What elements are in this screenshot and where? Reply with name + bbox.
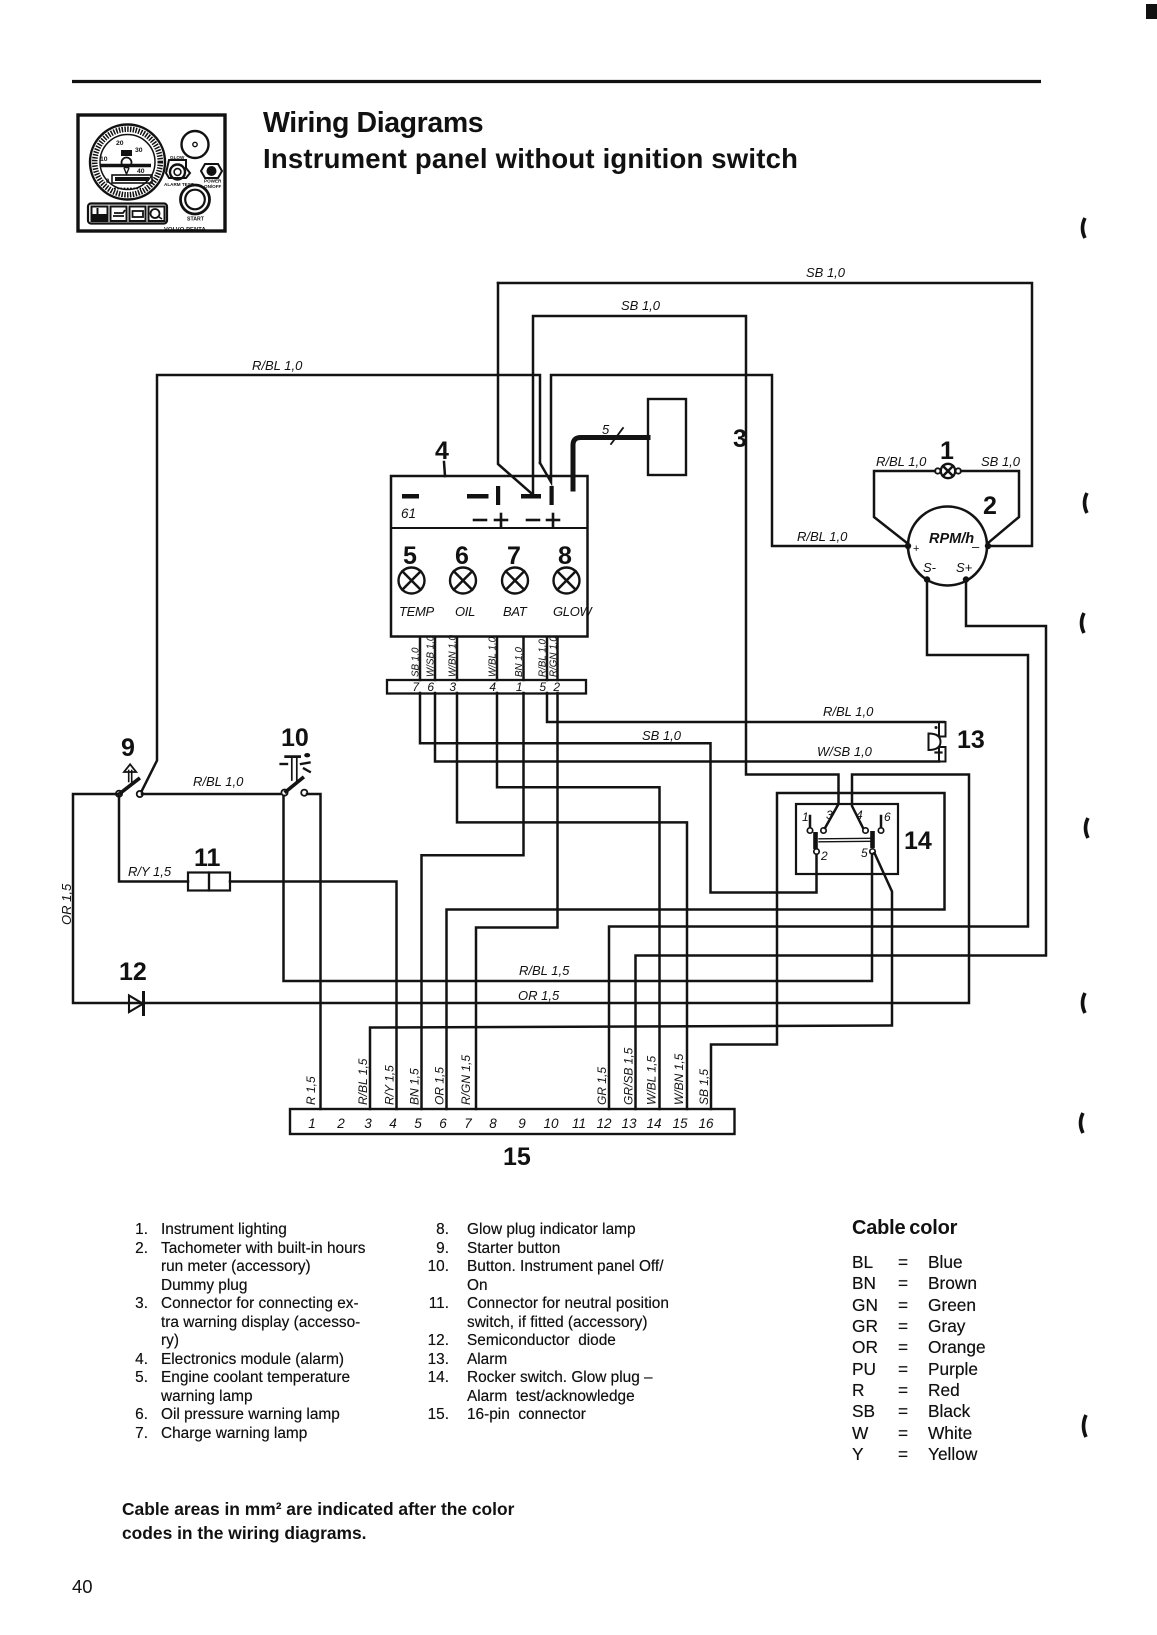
16-pin numbers xyxy=(308,1116,714,1131)
lamp L6 OIL xyxy=(450,542,476,619)
svg-text:15: 15 xyxy=(672,1116,688,1131)
svg-text:9: 9 xyxy=(518,1116,526,1131)
wire OR/SB U-path 16-pin 6 to 16-pin 16 around rocker xyxy=(447,793,945,1109)
wire R/BL 1.0 module pin5 to alarm xyxy=(547,693,944,722)
svg-text:+: + xyxy=(913,543,919,555)
svg-text:40: 40 xyxy=(137,168,145,175)
svg-text:4: 4 xyxy=(489,680,496,694)
svg-text:START: START xyxy=(187,217,205,223)
svg-text:1: 1 xyxy=(516,680,523,694)
svg-text:R/BL 1,0: R/BL 1,0 xyxy=(252,358,303,373)
svg-text:4: 4 xyxy=(856,808,863,822)
top rule xyxy=(72,80,1041,83)
svg-text:RPM/h: RPM/h xyxy=(929,531,974,547)
LEGEND xyxy=(118,1221,365,1444)
svg-text:BN 1,0: BN 1,0 xyxy=(514,646,525,677)
scan marks right edge xyxy=(1081,218,1089,1437)
svg-text:2: 2 xyxy=(983,492,997,520)
wire OR to switch 9 left contact xyxy=(73,793,118,796)
tachometer S+ terminal xyxy=(963,576,969,582)
svg-text:–: – xyxy=(972,539,980,554)
svg-text:W/BN 1,0: W/BN 1,0 xyxy=(448,635,459,677)
svg-text:W/BL 1,0: W/BL 1,0 xyxy=(488,636,499,677)
starter switch S9 xyxy=(116,764,143,797)
svg-text:OR 1,5: OR 1,5 xyxy=(59,883,74,925)
lamp L8 GLOW xyxy=(553,542,594,619)
wire GR/SB 1.5 tacho S+ to 16-pin 13 xyxy=(636,581,1047,1109)
svg-text:GR 1,5: GR 1,5 xyxy=(595,1067,609,1105)
svg-text:3: 3 xyxy=(826,808,833,822)
button B10 xyxy=(281,753,311,796)
wire SB 1.0 second (module pair2 minus to rocker pin 3) xyxy=(533,316,839,828)
tachometer minus terminal xyxy=(985,543,991,549)
svg-text:R/GN 1,5: R/GN 1,5 xyxy=(459,1055,473,1105)
svg-text:SB 1,0: SB 1,0 xyxy=(621,298,661,313)
svg-text:61: 61 xyxy=(401,506,416,521)
svg-text:14: 14 xyxy=(646,1116,661,1131)
svg-text:R/BL 1,0: R/BL 1,0 xyxy=(797,529,848,544)
glow / alarm test button xyxy=(164,155,194,187)
svg-text:5: 5 xyxy=(403,542,417,570)
svg-text:12: 12 xyxy=(596,1116,612,1131)
diode D12 xyxy=(129,993,144,1015)
svg-text:R/Y 1,5: R/Y 1,5 xyxy=(383,1065,397,1105)
svg-text:5: 5 xyxy=(602,422,610,437)
svg-text:POWER: POWER xyxy=(204,179,222,184)
svg-text:BAT: BAT xyxy=(503,604,528,619)
module wire labels rotated xyxy=(411,635,560,677)
svg-text:20: 20 xyxy=(116,140,124,147)
start button xyxy=(181,185,210,223)
svg-text:OR 1,5: OR 1,5 xyxy=(518,988,560,1003)
wire R/BL 1.0 from panel to starter switch 9 xyxy=(142,375,541,792)
cable color table xyxy=(852,1217,957,1240)
svg-text:4: 4 xyxy=(435,437,449,465)
svg-text:GLOW: GLOW xyxy=(553,604,594,619)
svg-text:OIL: OIL xyxy=(455,604,475,619)
tachometer U2 xyxy=(908,507,987,586)
tachometer S- terminal xyxy=(924,576,930,582)
svg-text:R/BL 1,5: R/BL 1,5 xyxy=(356,1058,370,1105)
svg-text:6: 6 xyxy=(439,1116,447,1131)
svg-text:OR 1,5: OR 1,5 xyxy=(433,1067,447,1105)
wire SB 1.0 module pin7 to rocker pin 2 xyxy=(420,693,817,893)
svg-text:3: 3 xyxy=(449,680,456,694)
svg-text:13: 13 xyxy=(621,1116,637,1131)
svg-text:R/BL 1,0: R/BL 1,0 xyxy=(538,639,549,677)
svg-text:SB 1,5: SB 1,5 xyxy=(697,1069,711,1105)
svg-text:R 1,5: R 1,5 xyxy=(304,1076,318,1105)
svg-text:16: 16 xyxy=(698,1116,714,1131)
svg-text:6: 6 xyxy=(455,542,469,570)
tachometer plus terminal xyxy=(905,543,911,549)
rocker switch S14 xyxy=(796,804,898,874)
titles xyxy=(263,107,483,140)
module pin numbers xyxy=(412,680,560,694)
wire GR 1.5 tacho S- to 16-pin 12 xyxy=(609,581,1028,1109)
alarm A13 xyxy=(929,722,946,762)
svg-text:S+: S+ xyxy=(956,560,973,575)
svg-text:3: 3 xyxy=(364,1116,372,1131)
svg-text:2: 2 xyxy=(336,1116,345,1131)
wire 5-lead to connector 3 (thick) xyxy=(573,438,648,490)
16-pin connector bar xyxy=(290,1109,735,1134)
svg-text:6: 6 xyxy=(884,810,891,824)
svg-text:R/BL 1,0: R/BL 1,0 xyxy=(823,704,874,719)
slash mark on wire 5 xyxy=(611,428,623,444)
page number xyxy=(72,1576,93,1598)
electronics module M4 xyxy=(391,476,588,637)
svg-text:TEMP: TEMP xyxy=(399,604,435,619)
wire R/Y 1.5 connector 11 to 16-pin 4 xyxy=(230,882,397,1110)
lamp L7 BAT xyxy=(502,542,528,619)
svg-text:W/SB 1,0: W/SB 1,0 xyxy=(817,744,873,759)
svg-text:10: 10 xyxy=(543,1116,559,1131)
connector C11 xyxy=(188,873,209,891)
svg-text:3: 3 xyxy=(733,425,747,453)
svg-text:1: 1 xyxy=(802,810,809,824)
svg-text:SB 1,0: SB 1,0 xyxy=(411,647,422,677)
wire R/GN 1.0 module pin2 to 16-pin 7 xyxy=(476,693,558,1109)
wire R/BL 1.0 into module pair2 plus xyxy=(540,375,906,546)
svg-text:SB 1,0: SB 1,0 xyxy=(642,728,682,743)
svg-text:R/Y 1,5: R/Y 1,5 xyxy=(128,864,172,879)
svg-text:GR/SB 1,5: GR/SB 1,5 xyxy=(622,1047,636,1105)
svg-text:SB 1,0: SB 1,0 xyxy=(981,454,1021,469)
svg-text:W/BN 1,5: W/BN 1,5 xyxy=(672,1053,686,1105)
warning lamp icon strip xyxy=(88,204,167,224)
wire SB 1.0 lamp right xyxy=(961,471,1019,543)
wire R/BL 1.0 between switch 9 and button 10 xyxy=(142,793,280,796)
svg-text:2: 2 xyxy=(820,849,828,863)
wire R/BL 1.5 button10 to rocker pin 5 xyxy=(284,796,873,981)
instrument panel picture frame xyxy=(78,115,225,231)
wire SB top left leg into module pair2 minus xyxy=(498,283,531,493)
svg-text:14: 14 xyxy=(904,827,932,855)
svg-text:R/GN 1,0: R/GN 1,0 xyxy=(549,636,560,677)
svg-text:5: 5 xyxy=(539,680,546,694)
svg-text:5: 5 xyxy=(414,1116,422,1131)
blank gauge circle xyxy=(182,131,209,158)
svg-text:30: 30 xyxy=(135,147,143,154)
lamp L1 instrument lighting xyxy=(935,464,961,478)
svg-text:13: 13 xyxy=(957,726,985,754)
svg-text:7: 7 xyxy=(464,1116,472,1131)
svg-text:8: 8 xyxy=(489,1116,497,1131)
svg-text:BN 1,5: BN 1,5 xyxy=(408,1068,422,1105)
svg-text:5: 5 xyxy=(861,846,868,860)
svg-text:11: 11 xyxy=(572,1116,586,1131)
connector C3 xyxy=(648,399,686,475)
footer note xyxy=(122,1497,514,1545)
wire R/Y 1.5 switch9 to connector 11 xyxy=(119,796,188,882)
corner blob top right xyxy=(1146,4,1157,19)
svg-text:SB 1,0: SB 1,0 xyxy=(806,265,846,280)
wire W/BL 1.0 module pin4 to 16-pin 14 xyxy=(497,693,660,1109)
wire R/BL 1.0 lamp left xyxy=(874,471,935,543)
svg-text:11: 11 xyxy=(194,844,221,872)
svg-text:1: 1 xyxy=(940,437,954,465)
svg-text:1: 1 xyxy=(308,1116,316,1131)
svg-text:GLOW: GLOW xyxy=(170,155,185,160)
svg-text:W/BL 1,5: W/BL 1,5 xyxy=(645,1056,659,1105)
wire W/BN 1.0 module pin3 to 16-pin 15 xyxy=(457,693,687,1109)
svg-text:W/SB 1,0: W/SB 1,0 xyxy=(426,635,437,677)
svg-text:2: 2 xyxy=(552,680,560,694)
svg-text:15: 15 xyxy=(503,1143,531,1171)
svg-text:12: 12 xyxy=(119,958,147,986)
lamp L5 TEMP xyxy=(399,542,435,619)
wire OR 1.5 rocker pin4 to diode line xyxy=(73,775,969,1004)
wire W/SB 1.0 module pin6 to alarm xyxy=(435,693,939,762)
WIRING DIAGRAM xyxy=(59,265,1046,1171)
svg-text:R/BL 1,0: R/BL 1,0 xyxy=(193,774,244,789)
svg-text:S-: S- xyxy=(923,560,937,575)
wire SB 1.0 top (lamp to tachometer minus) xyxy=(498,283,1032,546)
power on/off button xyxy=(201,164,222,189)
module bar pin stubs xyxy=(420,637,558,680)
svg-text:ON/OFF: ON/OFF xyxy=(204,184,222,189)
tachometer gauge xyxy=(90,125,165,200)
wire BN 1.0 module pin1 to 16-pin 5 xyxy=(422,693,524,1109)
svg-text:10: 10 xyxy=(281,724,309,752)
module connector bar xyxy=(387,680,586,694)
svg-text:R/BL 1,0: R/BL 1,0 xyxy=(876,454,927,469)
svg-text:VOLVO PENTA: VOLVO PENTA xyxy=(164,227,207,233)
svg-text:7: 7 xyxy=(507,542,521,570)
svg-text:4: 4 xyxy=(389,1116,397,1131)
svg-text:8: 8 xyxy=(558,542,572,570)
wire R/BL 1.5 16-pin 3 to rocker pin 5 via diagonal xyxy=(370,853,892,1109)
wire R 1.5 button10 to 16-pin 1 xyxy=(307,794,321,1109)
svg-text:10: 10 xyxy=(100,156,108,163)
svg-text:R/BL 1,5: R/BL 1,5 xyxy=(519,963,570,978)
svg-text:9: 9 xyxy=(121,734,135,762)
svg-text:6: 6 xyxy=(427,680,434,694)
16-pin wire labels rotated xyxy=(304,1047,711,1105)
